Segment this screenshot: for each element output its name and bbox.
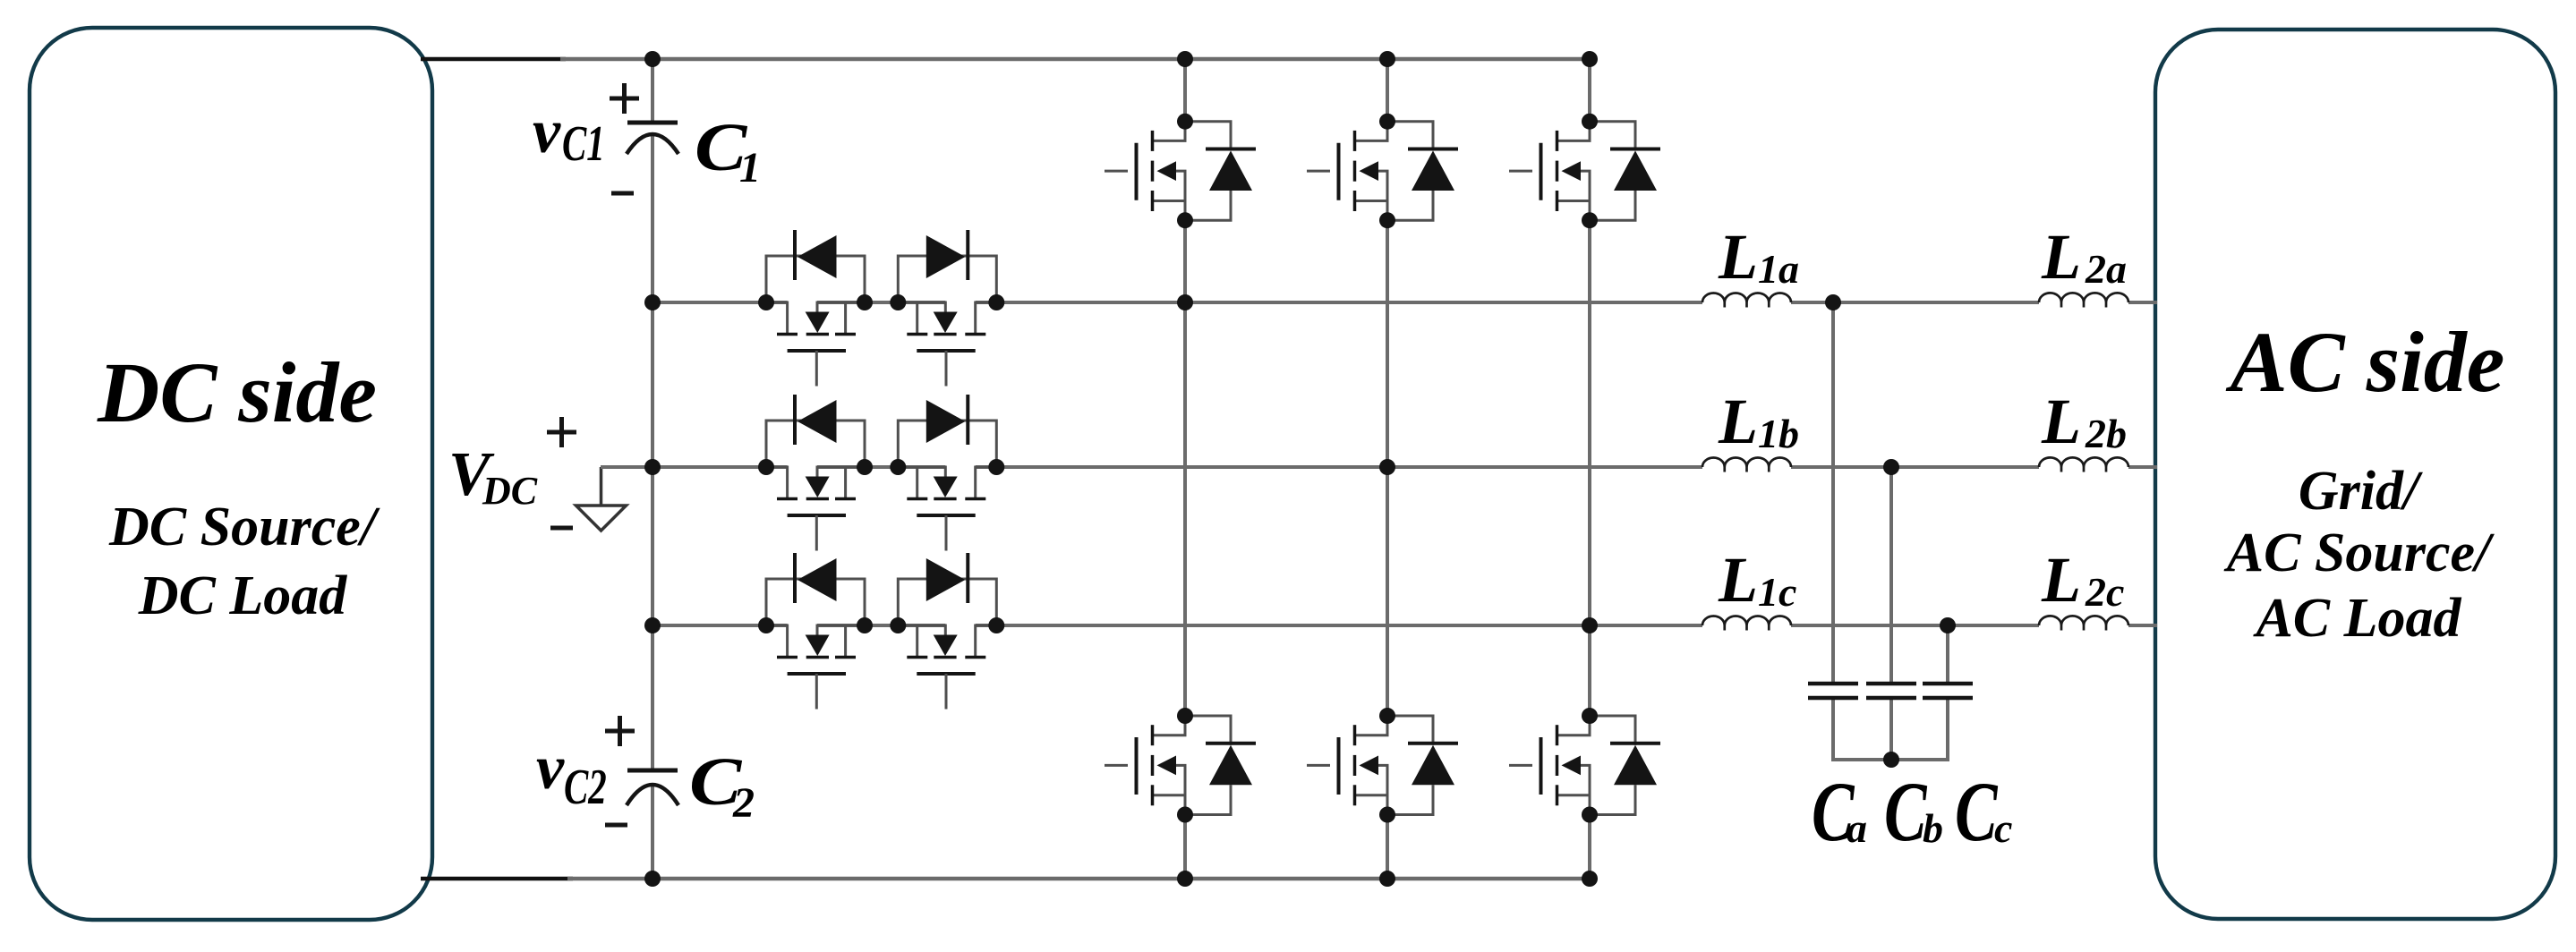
wire bottom DC rail — [567, 877, 1590, 881]
wire phase c row: L1c to L2c — [1791, 624, 2039, 627]
node bus-phase a — [644, 294, 661, 310]
DC side box — [30, 28, 432, 920]
svg-text:v: v — [536, 734, 565, 803]
plus sign VDC — [547, 417, 576, 447]
wire phase b row: cell common-source link — [817, 465, 945, 469]
diode Db2 (antiparallel) — [766, 395, 865, 467]
node top rail x=729 — [644, 51, 661, 67]
transistor Sb1 (MOSFET) — [1307, 122, 1387, 221]
ground — [576, 467, 627, 531]
svg-text:AC Source/: AC Source/ — [2223, 523, 2495, 583]
wire phase b row: L2b to AC box — [2128, 465, 2157, 469]
capacitor Cb — [1866, 684, 1916, 698]
diode DSc1 (antiparallel) — [1590, 122, 1660, 221]
diode Da3 (antiparallel) — [898, 230, 996, 302]
node phase b cap tap — [1883, 459, 1899, 475]
wire phase c row: midpoint bus to switch cell — [653, 624, 788, 627]
wire phase c row: cell to filter inductor L1c — [976, 624, 1702, 627]
svg-text:c: c — [1994, 805, 2012, 851]
node bottom rail x=1776 — [1582, 871, 1598, 887]
label vC1 — [533, 98, 605, 172]
node cell b x=1003.3 — [890, 459, 906, 475]
node cell c x=856 — [758, 617, 774, 633]
node Sb4 source — [1379, 807, 1395, 823]
node bus-phase b — [644, 459, 661, 475]
wire phase a row: L2a to AC box — [2128, 301, 2157, 304]
wire DC box to top rail (black stub) — [421, 57, 566, 62]
node Sb1 drain — [1379, 114, 1395, 130]
transistor Sc1 (MOSFET) — [1509, 122, 1590, 221]
node cell a x=1003.3 — [890, 294, 906, 310]
wire leg b middle (high-side switch to low-side switch) — [1386, 220, 1389, 716]
svg-text:AC side: AC side — [2226, 314, 2505, 410]
node top rail x=1550 — [1379, 51, 1395, 67]
wire phase c to filter cap Cc — [1946, 625, 1949, 682]
inductor L2c — [2039, 616, 2128, 630]
node bottom rail x=1324 — [1177, 871, 1193, 887]
wire DC box to bottom rail (black stub) — [421, 877, 573, 881]
node Sa1 source — [1177, 212, 1193, 228]
node cell a x=1113.3 — [988, 294, 1004, 310]
wire leg c lower (low-side switch to bottom rail) — [1588, 815, 1591, 880]
svg-text:DC side: DC side — [97, 344, 377, 440]
wire leg b lower (low-side switch to bottom rail) — [1386, 815, 1389, 880]
svg-text:C: C — [1955, 765, 1998, 859]
inductor L2b — [2039, 457, 2128, 472]
node Sc1 source — [1582, 212, 1598, 228]
capacitor Ca — [1808, 684, 1858, 698]
svg-text:b: b — [1923, 805, 1943, 851]
diode DSa4 (antiparallel) — [1185, 716, 1256, 815]
inductor L1c — [1702, 616, 1791, 631]
node Sa4 drain — [1177, 708, 1193, 724]
node cap star point — [1883, 752, 1899, 768]
svg-text:C2: C2 — [564, 759, 607, 815]
node Sc1 drain — [1582, 114, 1598, 130]
label Cc — [1955, 765, 2012, 859]
node cell b x=1113.3 — [988, 459, 1004, 475]
diode DSb1 (antiparallel) — [1387, 122, 1458, 221]
plus sign C2 — [605, 716, 635, 746]
wire leg a lower (low-side switch to bottom rail) — [1183, 815, 1187, 880]
label C2 — [689, 744, 755, 827]
svg-text:DC Load: DC Load — [138, 565, 348, 626]
node phase a cap tap — [1825, 294, 1841, 310]
diode Da2 (antiparallel) — [766, 230, 865, 302]
capacitor Cc — [1923, 684, 1973, 698]
wire leg c middle (high-side switch to low-side switch) — [1588, 220, 1591, 716]
wire leg b upper (top rail to high-side switch) — [1386, 59, 1389, 122]
wire phase a row: cell to filter inductor L1a — [976, 301, 1702, 304]
wire filter cap star point bus — [1831, 758, 1949, 761]
svg-text:C: C — [1884, 765, 1927, 859]
svg-text:Grid/: Grid/ — [2299, 461, 2423, 522]
label vC2 — [536, 734, 607, 815]
AC side box — [2155, 30, 2555, 919]
svg-text:2: 2 — [732, 779, 755, 827]
minus sign C2 — [605, 823, 627, 828]
node cell c x=966 — [857, 617, 873, 633]
label Cb — [1884, 765, 1943, 859]
capacitor C2 — [627, 770, 678, 805]
node Sc4 drain — [1582, 708, 1598, 724]
svg-text:AC Load: AC Load — [2252, 588, 2461, 649]
diode Dc2 (antiparallel) — [766, 553, 865, 625]
node cell b x=856 — [758, 459, 774, 475]
plus sign C1 — [610, 83, 639, 114]
minus sign VDC — [550, 526, 573, 531]
wire phase b to filter cap Cb — [1889, 467, 1893, 682]
diode DSa1 (antiparallel) — [1185, 122, 1256, 221]
label C1 — [695, 109, 761, 191]
transistor Sc2 (MOSFET) — [766, 625, 865, 710]
node cell a x=966 — [857, 294, 873, 310]
wire top DC rail — [560, 57, 1590, 62]
node Sa4 source — [1177, 807, 1193, 823]
node cell c x=1003.3 — [890, 617, 906, 633]
transistor Sa4 (MOSFET) — [1105, 716, 1185, 815]
transistor Sa3 (MOSFET) — [898, 302, 996, 387]
node leg b output — [1379, 459, 1395, 475]
wire phase b row: cell to filter inductor L1b — [976, 465, 1702, 469]
svg-text:a: a — [1847, 805, 1867, 851]
wire DC-link midpoint bus (vertical) — [651, 59, 654, 879]
diode Db3 (antiparallel) — [898, 395, 996, 467]
wire leg c upper (top rail to high-side switch) — [1588, 59, 1591, 122]
diode DSc4 (antiparallel) — [1590, 716, 1660, 815]
wire phase a row: midpoint bus to switch cell — [653, 301, 788, 304]
diode DSb4 (antiparallel) — [1387, 716, 1458, 815]
label Ca — [1812, 765, 1867, 859]
wire phase a to filter cap Ca — [1831, 302, 1835, 682]
transistor Sc4 (MOSFET) — [1509, 716, 1590, 815]
wire leg a middle (high-side switch to low-side switch) — [1183, 220, 1187, 716]
node cell a x=856 — [758, 294, 774, 310]
svg-text:C1: C1 — [562, 115, 605, 172]
wire Cc to star point — [1946, 700, 1949, 761]
wire phase b row: L1b to L2b — [1791, 465, 2039, 469]
wire leg a upper (top rail to high-side switch) — [1183, 59, 1187, 122]
wire phase b row: midpoint bus to switch cell — [601, 465, 788, 469]
wire phase c row: L2c to AC box — [2128, 624, 2157, 627]
wire Cb to star point — [1889, 700, 1893, 761]
node Sb1 source — [1379, 212, 1395, 228]
svg-text:v: v — [533, 98, 561, 166]
node leg a output — [1177, 294, 1193, 310]
node bottom rail x=729 — [644, 871, 661, 887]
node phase c cap tap — [1940, 617, 1956, 633]
node bottom rail x=1550 — [1379, 871, 1395, 887]
transistor Sb2 (MOSFET) — [766, 467, 865, 551]
node cell c x=1113.3 — [988, 617, 1004, 633]
inductor L2a — [2039, 293, 2128, 307]
minus sign C1 — [611, 191, 634, 196]
transistor Sc3 (MOSFET) — [898, 625, 996, 710]
diode Dc3 (antiparallel) — [898, 553, 996, 625]
node bus-phase c — [644, 617, 661, 633]
svg-text:DC Source/: DC Source/ — [108, 497, 380, 557]
wire phase c row: cell common-source link — [817, 624, 945, 627]
transistor Sb4 (MOSFET) — [1307, 716, 1387, 815]
node Sb4 drain — [1379, 708, 1395, 724]
wire phase a row: cell common-source link — [817, 301, 945, 304]
wire phase a row: L1a to L2a — [1791, 301, 2039, 304]
node cell b x=966 — [857, 459, 873, 475]
transistor Sa2 (MOSFET) — [766, 302, 865, 387]
capacitor C1 — [627, 123, 678, 154]
node Sa1 drain — [1177, 114, 1193, 130]
wire Ca to star point — [1831, 700, 1835, 761]
transistor Sb3 (MOSFET) — [898, 467, 996, 551]
node leg c output — [1582, 617, 1598, 633]
node top rail x=1776 — [1582, 51, 1598, 67]
inductor L1b — [1702, 458, 1791, 472]
transistor Sa1 (MOSFET) — [1105, 122, 1185, 221]
node Sc4 source — [1582, 807, 1598, 823]
node top rail x=1324 — [1177, 51, 1193, 67]
inductor L1a — [1702, 293, 1791, 308]
svg-text:1: 1 — [739, 144, 761, 191]
